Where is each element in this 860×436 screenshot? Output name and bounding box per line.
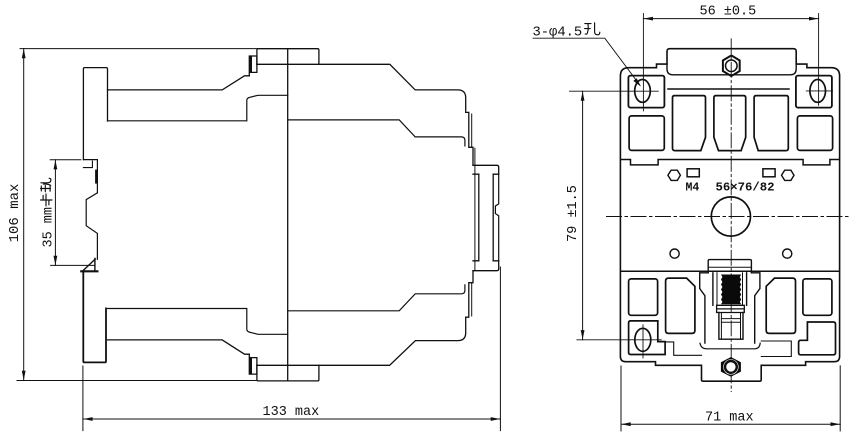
window row2 right — [797, 116, 832, 150]
interior step line 2 — [622, 270, 839, 272]
arrow 106 bottom — [22, 371, 26, 380]
glyph kong — [585, 23, 600, 35]
bottom window outer-left — [629, 279, 658, 315]
bottom window outer-right — [803, 279, 832, 315]
glyph gui — [41, 178, 51, 192]
dimension 106 max line — [23, 49, 25, 381]
dimension 71 extension left — [620, 366, 622, 431]
window row1 left — [673, 96, 706, 151]
oval hole top-right — [810, 80, 826, 103]
raised top block — [257, 49, 319, 65]
band line under cap — [668, 88, 789, 90]
clamp box rungs — [721, 319, 740, 323]
top screw circle — [726, 60, 738, 72]
DIN rail clip bump — [86, 193, 97, 259]
extension line top (106 max) — [20, 48, 257, 50]
small hexagon left — [668, 170, 681, 180]
clamp box center — [719, 313, 743, 340]
interior lines near bottom left — [658, 342, 702, 355]
upper profile line from plate — [108, 76, 250, 90]
dimension 133 extension right — [499, 267, 501, 431]
terminal clamp top bar — [473, 165, 499, 174]
bottom hex screw black ring — [725, 361, 737, 373]
spring black threads — [721, 275, 741, 305]
clip outer sides — [700, 273, 760, 343]
svg-text:79 ±1.5: 79 ±1.5 — [566, 185, 581, 242]
terminal thin strip lower — [471, 283, 473, 316]
bottom outline A' to terminal — [257, 271, 473, 366]
bottom window inner-left tall — [666, 278, 695, 333]
oval box bottom-left — [629, 321, 666, 355]
top outline A to terminal — [257, 64, 473, 165]
arrow 106 top — [22, 49, 26, 58]
dimension 71 line — [621, 423, 840, 425]
clip neck interior line — [708, 266, 751, 268]
leader 3-phi4.5 — [533, 38, 640, 84]
leader arrowhead — [633, 78, 641, 86]
DIN rail bottom tooth — [83, 258, 95, 270]
top screw hexagon — [723, 55, 740, 76]
dimension 79 line — [582, 91, 584, 340]
dimension 56 line — [643, 18, 818, 20]
dimension 35mm extension top — [50, 159, 81, 161]
bottom clip latch thick edge — [250, 359, 252, 373]
dimension 133 line — [83, 418, 501, 420]
arrow 79 bottom — [581, 330, 585, 339]
small circle right — [783, 249, 792, 258]
arrow 56 right — [809, 17, 818, 21]
top clip latch — [249, 56, 257, 76]
arrow 71 right — [831, 422, 840, 426]
crosshair bottom oval vertical — [642, 325, 644, 358]
arrow 56 left — [644, 17, 653, 21]
svg-text:3-φ4.5: 3-φ4.5 — [533, 26, 583, 41]
bottom hex screw filled — [721, 357, 741, 377]
horizontal centerline — [607, 216, 850, 218]
hole box top-right — [796, 76, 832, 108]
DIN rail notch bottom edge — [81, 270, 97, 272]
big center circle — [711, 197, 750, 236]
bottom hex screw white ring — [723, 359, 738, 374]
oval hole bottom-left — [635, 328, 651, 351]
raised bottom block — [257, 365, 319, 381]
left mounting plate upper part — [83, 68, 107, 160]
svg-text:M4: M4 — [686, 181, 700, 194]
arrow 35 top — [54, 160, 58, 169]
clip U bottom — [700, 343, 760, 349]
bottom window lower-right L-shaped — [799, 322, 836, 355]
window row1 right chamfered — [754, 96, 788, 151]
arrow 35 bottom — [54, 256, 58, 265]
vertical divider line — [287, 49, 289, 381]
dimension 133 extension left — [82, 366, 84, 431]
DIN rail notch top edge — [83, 160, 97, 193]
small square left — [687, 169, 699, 177]
small square right — [763, 169, 775, 177]
line B' lower right — [288, 285, 465, 311]
vertical centerline — [730, 39, 732, 392]
glyph ka — [41, 194, 53, 206]
terminal clamp box sides — [479, 174, 493, 261]
lower profile line from plate — [108, 340, 250, 354]
arrow 133 right — [491, 417, 500, 421]
svg-text:106 max: 106 max — [7, 184, 23, 243]
arrow 71 left — [621, 422, 630, 426]
DIN rail top hook detail — [83, 161, 92, 168]
bottom clip latch — [249, 354, 257, 374]
outer body outline — [620, 49, 839, 382]
clamp box inner verticals — [721, 313, 740, 340]
dimension 71 extension right — [839, 366, 841, 431]
window row2 left — [629, 116, 664, 150]
terminal thin strip upper — [471, 114, 473, 147]
interior lines near bottom right — [761, 341, 791, 357]
spring housing — [713, 273, 747, 306]
crosshair / extension 79 top — [570, 90, 659, 92]
window row1 middle — [714, 96, 746, 151]
clip neck rect — [708, 260, 751, 273]
DIN rail top thick mark — [95, 171, 98, 182]
top cap lower corners — [667, 64, 796, 75]
arrow 79 top — [581, 91, 585, 100]
terminal clamp right edge with notch — [495, 174, 498, 261]
bottom window inner-right tall — [766, 278, 795, 333]
oval hole top-left — [635, 80, 651, 103]
left mounting plate lower part — [83, 271, 106, 362]
hole box top-left — [628, 76, 664, 108]
crosshair top-right hole — [806, 90, 832, 92]
spring housing inner walls — [717, 273, 743, 306]
arrow 133 left — [83, 417, 92, 421]
crosshair bottom oval horizontal / 79 ext — [577, 339, 661, 341]
collar under spring — [717, 305, 745, 312]
terminal clamp strip inner vertical — [474, 148, 476, 271]
inner line y121 with step — [108, 95, 288, 121]
small hexagon right — [782, 170, 795, 180]
svg-text:133 max: 133 max — [263, 405, 320, 420]
dimension 35mm extension bottom — [51, 264, 95, 266]
dimension 35mm line — [54, 160, 56, 266]
inner line y308 with step — [108, 309, 288, 335]
extension line bottom (106 max) — [17, 380, 256, 382]
svg-text:71 max: 71 max — [705, 410, 754, 425]
extension 56 left — [642, 14, 644, 111]
label 35 mm + CJK (rotated) — [41, 178, 57, 247]
line B upper right — [288, 120, 465, 146]
svg-text:56×76/82: 56×76/82 — [716, 180, 775, 194]
extension 56 right — [818, 14, 820, 106]
terminal clamp bottom bar — [473, 261, 499, 271]
interior step line with notches — [622, 160, 839, 165]
small circle left — [670, 249, 679, 258]
svg-text:56 ±0.5: 56 ±0.5 — [700, 5, 757, 20]
svg-text:35 mm: 35 mm — [42, 207, 57, 248]
top clip latch thick edge — [250, 58, 252, 72]
